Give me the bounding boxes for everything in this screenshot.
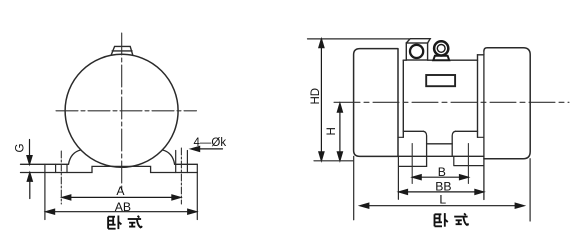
svg-text:A: A [116,184,125,198]
right end cover [484,48,530,159]
式 char [128,216,142,228]
nameplate [426,75,455,86]
hole centerline left (side view) / B extension [411,144,413,184]
4-Øk leader arrow [191,146,223,151]
dimension AB [46,209,197,214]
vertical centerline [121,33,123,193]
base plate bottom edge with platform step [21,166,198,172]
svg-text:G: G [15,144,27,153]
foot bridge line [427,143,453,145]
L left extension line [353,156,355,219]
label 卧式 right (hand drawn strokes) [435,213,469,227]
HD top extension line [308,38,410,40]
right hole centerline / A extension [180,148,182,204]
eyebolt ring inner [437,45,445,53]
lifting lug cap [111,46,132,54]
motor body (side) top and edges [403,55,484,138]
body bottom left segment [403,130,423,132]
base plate left edge / AB extension line [44,164,46,219]
dimension L [360,203,524,208]
left foot pad [398,156,426,199]
dimension G arrows [27,140,33,199]
dimension B [412,175,468,180]
right foot pad [454,156,484,165]
hole centerline right (side view) / B extension [467,144,469,184]
dimension BB [399,189,484,194]
base top line [398,155,484,157]
svg-text:AB: AB [115,200,131,214]
L right extension line [529,159,531,221]
svg-text:BB: BB [435,179,451,193]
HD dimension [319,39,324,161]
body-foot step right [478,136,484,138]
right leg fillet and inner edge [452,131,455,156]
base plate top edge left [21,163,69,165]
right fillet [162,150,174,164]
base bottom extension line [314,160,353,162]
base plate right edge / AB extension line [196,164,198,219]
卧 char [435,213,448,227]
svg-text:L: L [439,192,446,206]
eyebolt ring outer [434,41,448,55]
left foot bolt hole [56,164,67,172]
svg-text:H: H [326,127,338,135]
left end cover [354,49,398,157]
right foot bolt hole [176,151,188,173]
terminal box circle [410,45,423,58]
式 char [454,213,468,225]
base plate top edge right [175,163,198,165]
right cover left edge / pad right edge / BB extension [483,51,485,200]
svg-text:HD: HD [310,88,322,105]
svg-text:B: B [438,165,446,179]
left leg fillet and inner edge [423,131,426,166]
卧 char [108,216,121,230]
dimension A [62,195,181,200]
H dimension [337,103,342,160]
side view horizontal centerline [334,101,569,103]
label 卧式 left (hand drawn strokes) [108,216,142,230]
motor body circle [65,54,178,167]
terminal box [406,39,430,60]
body-foot step left [398,136,403,138]
left hole centerline / A extension [60,151,62,204]
eyebolt base [433,56,449,61]
body bottom right segment [455,130,477,132]
left fillet [69,150,81,164]
horizontal centerline [56,110,197,112]
